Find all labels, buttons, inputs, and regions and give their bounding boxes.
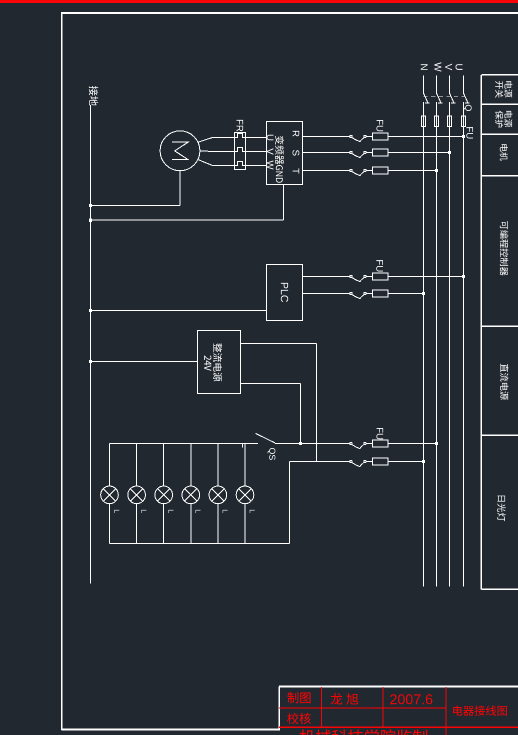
switch QS blade bus U [464,93,468,102]
lamp L4 lead bottom [190,504,192,544]
switch contact row L2 [350,460,352,462]
sidebar divider [481,434,518,436]
lamp L3 lead bottom [163,504,165,544]
title text bottom 机械科技学院监制 [299,729,427,735]
net label U [456,64,463,70]
junction row S [448,151,451,154]
title text 2007.6 [390,694,432,704]
bus V upper segment [449,75,451,93]
sidebar label 直流电源 [500,364,508,400]
thermal relay FR box [235,133,246,170]
sidebar divider [481,588,518,590]
wire ground bus vertical [90,106,92,584]
switch contact row L1 [350,442,352,444]
lamp L6 label [250,510,255,513]
wire switch to fuse row PLC2 [366,293,372,295]
sidebar label 可编程控制器 [500,221,509,276]
junction row PLC2 [422,292,425,295]
motor M circle [160,131,200,171]
wire inverter T to switch [303,170,350,172]
lamp L3 lead top [163,444,165,487]
wire QS to switch [275,443,350,445]
junction rectifier-ground [89,360,92,363]
lamp L1 lead bottom [109,504,111,544]
wire motor phase 1 [198,138,235,143]
switch QS blade (lamps) [256,433,276,443]
net label N [421,64,428,70]
inverter pin label S [293,150,300,156]
wire rectifier out+ [241,343,317,345]
bus N upper segment [423,75,425,93]
junction row T [435,169,438,172]
inverter pin label T [293,168,300,173]
fuse FU row T [373,167,388,174]
net label V [445,64,452,71]
bus V lower segment [449,102,451,587]
wire fuse to bus row L2 [388,461,423,463]
wire fuse to bus row S [388,152,449,154]
wire switch to fuse row R [366,136,372,138]
lamp L5 circle [209,486,227,504]
FR heater element 1 [235,134,246,138]
junction row R [462,135,465,138]
fuse FU label (lamp rows) [376,428,383,439]
bus W fuse FU [435,116,439,127]
lamp L2 label [141,510,146,513]
lamp L4 circle [182,486,200,504]
rectifier label [213,343,222,381]
junction row L2 [422,460,425,463]
fuse FU row R [373,133,388,140]
wire motor ground [179,171,181,206]
lamp L1 label [114,510,119,513]
node 接地 (ground) label [89,86,98,106]
fuse FU row S [373,149,388,156]
inverter name 变频器GND [275,136,284,165]
junction tick lamp bus [242,444,244,448]
lamp L4 label [196,510,201,513]
title text 电器接线图 [453,705,507,715]
inverter pin label W [267,160,274,169]
switch contact row T [350,169,352,171]
wire FR to inverter W [246,165,267,167]
wire FR to inverter V [246,151,267,153]
PLC label [281,283,288,302]
FR heater element 3 [235,162,246,166]
switch QS blade bus W [437,93,441,102]
title text 校核 [287,713,311,724]
switch contact row S [350,151,352,153]
wire switch to fuse row PLC1 [366,276,372,278]
wire PLC PLC2 to switch [303,293,350,295]
fuse FU row L1 [373,440,388,447]
sidebar divider [481,74,518,76]
inverter pin label U [267,135,274,141]
title block top border [279,686,518,688]
junction rectifier- on lamp row [299,442,302,445]
wire fuse to bus row L1 [388,443,436,445]
lamp L6 circle [236,486,254,504]
wire inverter S to switch [303,152,350,154]
bus U fuse FU [462,116,466,127]
fuse FU row PLC2 [373,290,388,297]
lamp L2 circle [128,486,146,504]
inverter U1 box [267,122,303,185]
lamp L5 lead top [217,444,219,487]
PLC U2 box [267,265,303,321]
wire switch to fuse row T [366,170,372,172]
wire FR to inverter U [246,137,267,139]
lamp L5 label [223,510,228,513]
bus N fuse FU [422,116,426,127]
wire lamp return vertical [289,462,291,544]
wire lamp return row [290,461,350,463]
wire PLC PLC1 to switch [303,276,350,278]
thermal relay FR label [237,120,244,132]
sidebar left border [480,75,482,590]
title block divider h1 [279,707,446,709]
bus N lower segment [423,102,425,587]
title text 制图 [287,692,310,703]
wire motor phase 3 [198,159,235,165]
wire switch to fuse row S [366,152,372,154]
bus V fuse FU [448,116,452,127]
fuse FU label (motor rows) [376,120,383,131]
motor M label [172,142,188,159]
lamp L2 lead top [136,444,138,487]
wire motor phase 2 [200,150,235,153]
wire fuse to bus row T [388,170,436,172]
inverter pin label R [293,131,300,137]
lamp L1 circle [101,486,119,504]
wire fuse to bus row PLC2 [388,293,423,295]
wire fuse to bus row R [388,136,463,138]
sidebar divider [481,325,518,327]
fuse FU label (PLC rows) [376,260,383,271]
title block divider v3 [445,687,447,735]
junction row PLC1 [462,275,465,278]
title block divider h2 [279,726,518,728]
switch contact row R [350,135,352,137]
sidebar divider [481,133,518,135]
junction motor-ground [89,204,92,207]
wire PLC common to ground bus [91,310,267,312]
junction PLC-ground [89,309,92,312]
lamp L3 label [168,510,173,513]
net label W [434,62,441,71]
title block left border [278,687,280,731]
title text 龙旭 [331,693,359,705]
bus U lower segment [463,102,465,587]
switch QS linkage dashed [424,96,467,98]
bus W lower segment [436,102,438,587]
sidebar label 电源保护 [504,111,512,127]
lamp L4 lead top [190,444,192,487]
lamp L2 lead bottom [136,504,138,544]
fuse FU row L2 [373,458,388,465]
bus W upper segment [436,75,438,93]
lamp L6 lead bottom [244,504,246,544]
lamp L6 lead top [244,444,246,487]
fuse FU label (buses) [466,127,473,138]
switch QS label (buses) [464,105,472,111]
title block divider v1 [320,687,322,727]
switch contact row PLC1 [350,275,352,277]
wire switch to fuse row L2 [366,461,372,463]
title block divider v2 [382,687,384,727]
junction row L1 [435,442,438,445]
sidebar divider [481,103,518,105]
inverter pin label V [267,148,274,154]
sidebar label 电机 [500,144,508,160]
wire rectifier common to ground bus [91,361,198,363]
switch QS label (lamps) [268,448,276,460]
wire rectifier out- [241,383,301,385]
fuse FU row PLC1 [373,273,388,280]
bus U upper segment [463,75,465,93]
switch QS blade bus V [450,93,454,102]
sidebar label 日光灯 [497,496,505,522]
wire lamp bottom bus [110,543,290,545]
wire inverter GND to ground bus [283,185,285,221]
top red bar [0,0,518,3]
wire lamp top bus [110,443,259,445]
FR heater element 2 [235,148,246,152]
wire fuse to bus row PLC1 [388,276,463,278]
wire switch to fuse row L1 [366,443,372,445]
switch contact row PLC2 [350,292,352,294]
lamp L3 circle [155,486,173,504]
wire inverter R to switch [303,136,350,138]
lamp L1 lead top [109,444,111,487]
rectifier box 整流电源24V [198,331,241,394]
switch QS blade bus N [424,93,428,102]
sidebar label 电源开关 [504,81,512,97]
lamp L5 lead bottom [217,504,219,544]
junction inverterGND-ground [89,219,92,222]
sidebar divider [481,175,518,177]
